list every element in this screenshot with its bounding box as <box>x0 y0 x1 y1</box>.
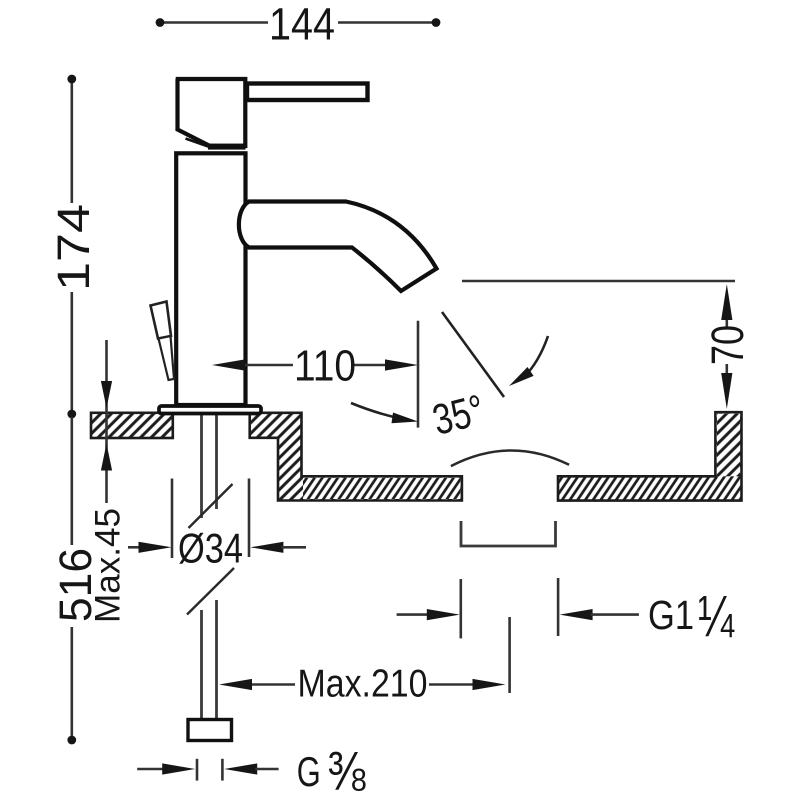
svg-text:110: 110 <box>294 342 356 391</box>
svg-text:G1: G1 <box>648 592 694 638</box>
svg-text:Max.210: Max.210 <box>298 662 428 705</box>
svg-text:174: 174 <box>48 204 99 291</box>
svg-text:70: 70 <box>702 325 753 365</box>
svg-text:¼: ¼ <box>698 584 734 649</box>
svg-text:⅜: ⅜ <box>328 740 367 800</box>
svg-text:144: 144 <box>269 0 335 49</box>
svg-text:G: G <box>297 748 321 795</box>
svg-text:Ø34: Ø34 <box>178 525 243 572</box>
svg-text:Max.45: Max.45 <box>89 508 128 623</box>
svg-text:35°: 35° <box>428 386 489 445</box>
